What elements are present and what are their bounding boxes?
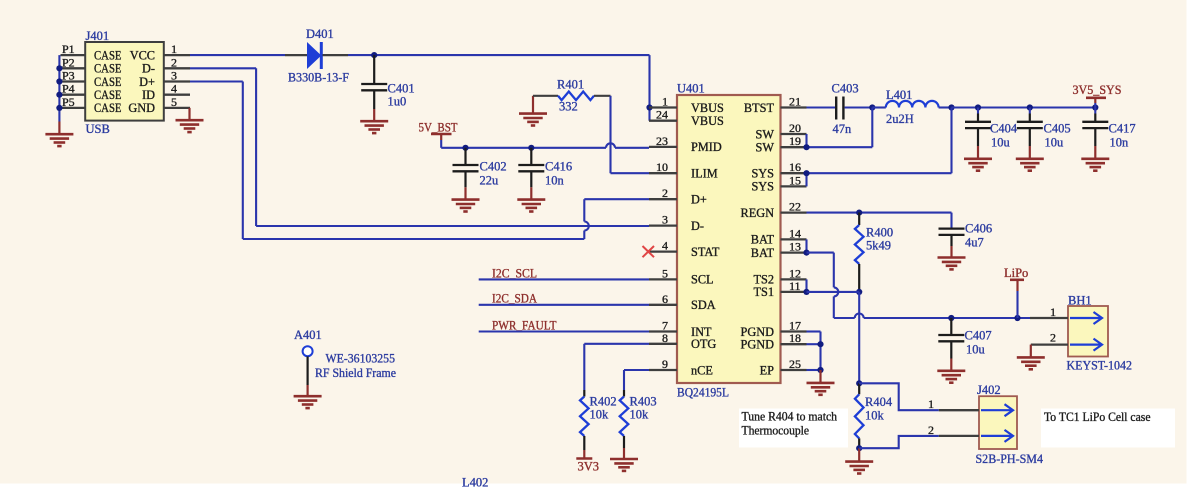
svg-text:8: 8 bbox=[662, 331, 668, 345]
svg-text:BAT: BAT bbox=[751, 233, 775, 247]
svg-text:10: 10 bbox=[656, 160, 668, 174]
J401 pin P4 stub bbox=[61, 94, 86, 96]
svg-text:CASE: CASE bbox=[94, 75, 122, 89]
svg-text:PWR_FAULT: PWR_FAULT bbox=[492, 318, 557, 332]
svg-text:To TC1 LiPo Cell case: To TC1 LiPo Cell case bbox=[1044, 410, 1151, 424]
svg-text:CASE: CASE bbox=[94, 62, 122, 76]
R401 left lead bbox=[533, 95, 558, 97]
U401 pin 6 SDA stub bbox=[649, 304, 677, 306]
U401 pin 17 PGND stub bbox=[781, 330, 807, 332]
wire D+ to pin 2 bbox=[584, 198, 649, 200]
svg-text:R402: R402 bbox=[590, 395, 617, 409]
wire BAT down bbox=[833, 253, 835, 288]
U401 pin 1 VBUS stub bbox=[649, 106, 677, 108]
svg-text:18: 18 bbox=[789, 331, 801, 345]
svg-text:9: 9 bbox=[662, 357, 668, 371]
svg-text:B330B-13-F: B330B-13-F bbox=[288, 71, 349, 85]
C407 bottom lead bbox=[950, 341, 952, 359]
wire L401 to SYS node bbox=[939, 106, 952, 108]
svg-text:C401: C401 bbox=[388, 82, 415, 96]
svg-text:STAT: STAT bbox=[691, 245, 720, 259]
svg-text:332: 332 bbox=[559, 100, 578, 114]
svg-text:SYS: SYS bbox=[751, 167, 774, 181]
svg-text:P4: P4 bbox=[62, 82, 75, 96]
wire D+ vertical riser bbox=[583, 231, 585, 240]
svg-text:BAT: BAT bbox=[751, 246, 775, 260]
ground C417 bbox=[1081, 159, 1109, 171]
svg-text:1u0: 1u0 bbox=[388, 95, 407, 109]
note box To TC1 bbox=[1041, 409, 1175, 448]
C417 bottom lead bbox=[1094, 128, 1096, 146]
wire USB pin5 gnd stub (red) bbox=[188, 108, 190, 120]
svg-text:J401: J401 bbox=[86, 29, 110, 43]
ground C401 bbox=[360, 121, 388, 133]
svg-text:C406: C406 bbox=[965, 222, 992, 236]
wire BAT horizontal to BH1 bbox=[834, 317, 855, 319]
J401 pin 5 stub bbox=[164, 107, 190, 109]
junction LiPo bbox=[1014, 315, 1020, 321]
R403 bottom lead bbox=[623, 436, 625, 448]
svg-text:C404: C404 bbox=[990, 122, 1018, 136]
svg-text:CASE: CASE bbox=[94, 48, 122, 62]
U401 pin 23 PMID stub bbox=[649, 146, 677, 148]
R403 top lead bbox=[623, 390, 625, 397]
R402 top lead bbox=[583, 390, 585, 397]
svg-text:24: 24 bbox=[656, 108, 668, 122]
svg-text:BH1: BH1 bbox=[1068, 294, 1092, 308]
svg-text:PGND: PGND bbox=[741, 338, 775, 352]
C406 bottom lead bbox=[950, 235, 952, 246]
wire bracket pins 20-19 bbox=[805, 134, 807, 147]
svg-text:SW: SW bbox=[756, 127, 775, 141]
svg-text:D+: D+ bbox=[691, 193, 707, 207]
BH1 pin 2 stub bbox=[1031, 343, 1068, 345]
wire tap to J402 pin 1 bbox=[859, 383, 939, 410]
U401 pin 9 nCE stub bbox=[649, 369, 677, 371]
wire VBUS vertical to U401 pin1 bbox=[648, 55, 650, 121]
svg-text:15: 15 bbox=[789, 173, 801, 187]
svg-text:L402: L402 bbox=[462, 476, 488, 490]
antenna mount A401 circle bbox=[303, 346, 313, 356]
BH1 pin 2 arrow bbox=[1070, 339, 1102, 351]
svg-text:13: 13 bbox=[789, 240, 801, 254]
svg-text:3: 3 bbox=[662, 213, 668, 227]
junction C405 bbox=[1027, 104, 1033, 110]
svg-text:5k49: 5k49 bbox=[866, 239, 891, 253]
svg-text:D-: D- bbox=[142, 62, 155, 76]
svg-text:R400: R400 bbox=[866, 226, 893, 240]
R402 bottom lead bbox=[583, 436, 585, 450]
R400 top lead bbox=[858, 213, 860, 225]
svg-text:C416: C416 bbox=[545, 160, 572, 174]
resistor R403 bbox=[620, 397, 629, 437]
wire REGN from pin 22 bbox=[807, 212, 952, 214]
wire SYS rail to caps bbox=[952, 106, 1096, 108]
svg-text:2: 2 bbox=[662, 186, 668, 200]
wire OTG pin 8 to R402 bbox=[584, 343, 649, 345]
wire pin21 to C403 bbox=[807, 106, 836, 108]
svg-text:C417: C417 bbox=[1109, 122, 1136, 136]
svg-text:BQ24195L: BQ24195L bbox=[677, 386, 729, 400]
svg-text:EP: EP bbox=[760, 363, 775, 377]
note box Tune R404 bbox=[739, 409, 848, 448]
wire USB shell bus vertical bbox=[58, 55, 60, 121]
wire D- from USB pin2 bbox=[190, 67, 256, 69]
svg-text:11: 11 bbox=[789, 279, 801, 293]
wire bracket pins 14-13 bbox=[805, 239, 807, 252]
capacitor C402 top lead bbox=[464, 148, 466, 165]
svg-text:3V3: 3V3 bbox=[578, 460, 600, 474]
svg-text:10u: 10u bbox=[966, 343, 986, 357]
R401 left ground stub (red) bbox=[532, 96, 534, 114]
wire PWR_FAULT to pin 7 bbox=[479, 330, 649, 332]
svg-text:A401: A401 bbox=[294, 328, 322, 342]
ground A401 bbox=[294, 396, 322, 408]
svg-text:14: 14 bbox=[789, 226, 801, 240]
U401 pin 13 BAT stub bbox=[781, 251, 807, 253]
inductor L401 bbox=[886, 101, 939, 108]
svg-text:C403: C403 bbox=[832, 82, 859, 96]
svg-text:1: 1 bbox=[171, 42, 177, 56]
U401 pin 4 STAT stub bbox=[649, 250, 677, 252]
U401 pin 10 ILIM stub bbox=[649, 172, 677, 174]
hop BAT over R404 wire bbox=[855, 314, 864, 319]
junction SW bracket bbox=[803, 144, 809, 150]
J401 pin 4 stub bbox=[164, 94, 190, 96]
capacitor C407 top lead bbox=[950, 318, 952, 335]
svg-text:SW: SW bbox=[756, 141, 775, 155]
svg-text:R403: R403 bbox=[630, 395, 657, 409]
svg-text:25: 25 bbox=[789, 357, 801, 371]
svg-text:VCC: VCC bbox=[130, 48, 155, 62]
wire I2C_SDA to pin 6 bbox=[479, 304, 649, 306]
wire TS to R400 bottom bbox=[807, 291, 860, 293]
R401 right lead bbox=[594, 95, 611, 97]
R404 top lead bbox=[858, 383, 860, 394]
svg-text:1: 1 bbox=[1050, 305, 1056, 319]
svg-text:21: 21 bbox=[789, 95, 801, 109]
J402 pin 1 arrow bbox=[981, 404, 1013, 416]
svg-text:4: 4 bbox=[171, 82, 177, 96]
svg-text:10n: 10n bbox=[545, 174, 565, 188]
svg-text:2u2H: 2u2H bbox=[886, 112, 914, 126]
svg-text:SDA: SDA bbox=[691, 298, 716, 312]
J401 pin P2 stub bbox=[61, 67, 86, 69]
svg-text:OTG: OTG bbox=[691, 337, 716, 351]
ground USB shell bbox=[45, 134, 73, 146]
junction SW node bbox=[869, 104, 875, 110]
junction BAT bracket bbox=[803, 250, 809, 256]
R404 bottom lead bbox=[858, 438, 860, 448]
capacitor C417 bbox=[1082, 122, 1108, 128]
U401 pin 18 PGND stub bbox=[781, 343, 807, 345]
svg-text:ID: ID bbox=[142, 88, 155, 102]
wire REGN down to C406 bbox=[950, 213, 952, 229]
svg-text:BTST: BTST bbox=[744, 101, 775, 115]
J401 pin 3 stub bbox=[164, 80, 190, 82]
svg-text:R401: R401 bbox=[557, 78, 584, 92]
junction EP bbox=[817, 367, 823, 373]
svg-text:I2C_SDA: I2C_SDA bbox=[492, 292, 537, 306]
U401 pin 11 TS1 stub bbox=[781, 291, 807, 293]
junction R400 top bbox=[856, 210, 862, 216]
wire BAT right bbox=[807, 252, 834, 254]
J401 pin P1 stub bbox=[61, 54, 86, 56]
svg-text:5V_BST: 5V_BST bbox=[419, 121, 458, 135]
junction TS bracket bbox=[803, 289, 809, 295]
ground R403 bbox=[610, 459, 638, 471]
svg-text:REGN: REGN bbox=[741, 206, 775, 220]
svg-text:C402: C402 bbox=[480, 160, 507, 174]
svg-text:GND: GND bbox=[128, 101, 155, 115]
resistor R400 bbox=[855, 225, 864, 264]
capacitor C403 (series) bbox=[836, 97, 843, 120]
svg-text:P3: P3 bbox=[62, 69, 75, 83]
C404 bottom lead bbox=[977, 128, 979, 146]
svg-text:23: 23 bbox=[656, 134, 668, 148]
svg-text:Tune R404 to match: Tune R404 to match bbox=[742, 410, 838, 424]
C401 bottom lead bbox=[373, 90, 375, 109]
junction P4 bbox=[56, 92, 62, 98]
capacitor C407 bbox=[938, 335, 964, 341]
resistor R401 bbox=[558, 92, 594, 101]
junction C402 bbox=[462, 145, 468, 151]
capacitor C417 top lead bbox=[1094, 108, 1096, 114]
svg-text:RF Shield Frame: RF Shield Frame bbox=[315, 366, 396, 380]
svg-text:C407: C407 bbox=[965, 329, 992, 343]
junction SYS bracket bbox=[803, 170, 809, 176]
svg-text:16: 16 bbox=[789, 160, 801, 174]
U401 pin 15 SYS stub bbox=[781, 185, 807, 187]
ground BH1 bbox=[1017, 357, 1045, 369]
wire PMID net bbox=[441, 147, 606, 149]
BH1 pin 2 ground stub (red) bbox=[1030, 345, 1032, 358]
U401 pin 14 BAT stub bbox=[781, 238, 807, 240]
U401 pin 25 EP stub bbox=[781, 369, 807, 371]
svg-text:P2: P2 bbox=[62, 55, 75, 69]
svg-text:J402: J402 bbox=[977, 383, 1001, 397]
U401 pin 19 SW stub bbox=[781, 146, 807, 148]
U401 pin 20 SW stub bbox=[781, 133, 807, 135]
BH1 pin 1 stub bbox=[1030, 317, 1068, 319]
J401 pin 2 stub bbox=[164, 67, 190, 69]
svg-text:PMID: PMID bbox=[691, 140, 722, 154]
wire USB shell to ground (red) bbox=[58, 122, 60, 135]
wire VCC to diode bbox=[190, 54, 285, 56]
svg-text:WE-36103255: WE-36103255 bbox=[326, 352, 396, 366]
U401 pin 12 TS2 stub bbox=[781, 278, 807, 280]
svg-text:R404: R404 bbox=[865, 395, 893, 409]
svg-text:SCL: SCL bbox=[691, 273, 714, 287]
wire SYS node to pins 16-15 bbox=[807, 172, 952, 174]
svg-text:3V5_SYS: 3V5_SYS bbox=[1073, 83, 1122, 97]
R404 ground stub (red) bbox=[858, 448, 860, 461]
capacitor C405 top lead bbox=[1029, 108, 1031, 114]
svg-text:4: 4 bbox=[662, 239, 668, 253]
wire bracket pins 12-11 bbox=[805, 279, 807, 292]
capacitor C405 bbox=[1017, 122, 1043, 128]
svg-text:CASE: CASE bbox=[94, 88, 122, 102]
svg-text:CASE: CASE bbox=[94, 101, 122, 115]
wire SW node to L401 bbox=[872, 106, 886, 108]
svg-text:6: 6 bbox=[662, 292, 668, 306]
svg-text:VBUS: VBUS bbox=[691, 114, 724, 128]
ground C406 bbox=[938, 258, 966, 270]
svg-text:SYS: SYS bbox=[751, 180, 774, 194]
svg-text:nCE: nCE bbox=[691, 363, 713, 377]
svg-text:4u7: 4u7 bbox=[965, 236, 984, 250]
svg-text:P5: P5 bbox=[62, 95, 75, 109]
U401 pin 5 SCL stub bbox=[649, 278, 677, 280]
svg-text:KEYST-1042: KEYST-1042 bbox=[1067, 359, 1133, 373]
U401 pin 16 SYS stub bbox=[781, 172, 807, 174]
svg-text:Thermocouple: Thermocouple bbox=[742, 424, 810, 438]
svg-text:D-: D- bbox=[691, 219, 704, 233]
junction VBUS pins 1-24 bbox=[646, 104, 652, 110]
connector BH1 box bbox=[1068, 306, 1108, 357]
svg-text:10k: 10k bbox=[865, 409, 885, 423]
svg-text:1: 1 bbox=[928, 397, 934, 411]
wire SW node to pins 19-20 bbox=[807, 146, 873, 148]
junction TS node bbox=[856, 289, 862, 295]
junction C416 bbox=[528, 145, 534, 151]
U401 pin 7 INT stub bbox=[649, 330, 677, 332]
junction C417 bbox=[1092, 104, 1098, 110]
U401 pin 2 D+ stub bbox=[649, 198, 677, 200]
ground PGND bbox=[807, 383, 835, 395]
J401 pin 1 stub bbox=[164, 54, 190, 56]
wire SW node down bbox=[871, 108, 873, 148]
svg-text:TS1: TS1 bbox=[754, 285, 775, 299]
svg-text:1: 1 bbox=[662, 95, 668, 109]
svg-text:USB: USB bbox=[86, 122, 110, 136]
U401 pin 3 D- stub bbox=[649, 224, 677, 226]
ground C402 bbox=[452, 200, 480, 212]
wire bracket pins 17-18 bbox=[807, 330, 821, 332]
svg-text:5: 5 bbox=[171, 95, 177, 109]
junction SYS node bbox=[948, 104, 954, 110]
svg-text:2: 2 bbox=[171, 55, 177, 69]
wire tap to J402 pin 2 bbox=[859, 436, 939, 448]
C402 bottom lead bbox=[464, 171, 466, 187]
svg-text:U401: U401 bbox=[677, 82, 705, 96]
ground R404 bbox=[845, 462, 873, 474]
capacitor C416 bbox=[518, 165, 544, 171]
junction P5 bbox=[56, 105, 62, 111]
wire SYS node down bbox=[950, 108, 952, 174]
svg-text:22u: 22u bbox=[480, 174, 500, 188]
junction P2 bbox=[56, 65, 62, 71]
svg-text:I2C_SCL: I2C_SCL bbox=[492, 266, 537, 280]
J401 pin P3 stub bbox=[61, 80, 86, 82]
wire R401 to ILIM vertical bbox=[609, 96, 611, 173]
J402 pin 1 stub bbox=[939, 409, 979, 411]
svg-text:5: 5 bbox=[662, 266, 668, 280]
connector J401 box bbox=[85, 42, 164, 121]
svg-text:22: 22 bbox=[789, 200, 801, 214]
C416 bottom lead bbox=[530, 171, 532, 187]
wire C403 to SW node bbox=[845, 106, 873, 108]
junction J402 pin1 tap bbox=[856, 380, 862, 386]
svg-text:ILIM: ILIM bbox=[691, 167, 718, 181]
capacitor C406 bbox=[939, 229, 965, 235]
junction C401 node bbox=[371, 52, 377, 58]
capacitor C401 bbox=[361, 84, 387, 90]
svg-text:VBUS: VBUS bbox=[691, 101, 724, 115]
junction C404 bbox=[975, 104, 981, 110]
A401 lead bbox=[307, 356, 309, 385]
ground C404 bbox=[964, 159, 992, 171]
op-amp U401 body bbox=[677, 95, 781, 383]
wire TS node down to R404 bbox=[858, 292, 860, 383]
J402 pin 2 stub bbox=[939, 435, 979, 437]
svg-text:10n: 10n bbox=[1110, 136, 1130, 150]
wire I2C_SCL to pin 5 bbox=[479, 278, 649, 280]
svg-text:LiPo: LiPo bbox=[1004, 266, 1028, 280]
capacitor C416 top lead bbox=[530, 148, 532, 165]
U401 pin 21 BTST stub bbox=[781, 106, 807, 108]
J401 pin P5 stub bbox=[61, 107, 86, 109]
power port 3V3 bbox=[583, 450, 585, 459]
no-connect X on pin 4 STAT bbox=[643, 246, 655, 257]
capacitor C402 bbox=[453, 165, 479, 171]
svg-text:D+: D+ bbox=[139, 75, 155, 89]
ground C405 bbox=[1016, 159, 1044, 171]
hop BAT over TS wire bbox=[834, 287, 839, 296]
U401 pin 8 OTG stub bbox=[649, 343, 677, 345]
ground C416 bbox=[517, 200, 545, 212]
svg-text:C405: C405 bbox=[1044, 122, 1071, 136]
wire D+ from USB pin3 bbox=[190, 80, 243, 82]
svg-text:10u: 10u bbox=[991, 136, 1011, 150]
svg-text:L401: L401 bbox=[886, 88, 912, 102]
J402 pin 2 arrow bbox=[981, 430, 1013, 442]
svg-text:10k: 10k bbox=[590, 408, 610, 422]
ground C407 bbox=[937, 371, 965, 383]
junction P3 bbox=[56, 78, 62, 84]
wire bracket pins 16-15 bbox=[805, 173, 807, 186]
resistor R402 bbox=[580, 397, 589, 437]
svg-text:2: 2 bbox=[1050, 331, 1056, 345]
capacitor C404 bbox=[965, 122, 991, 128]
diode D401 bbox=[307, 42, 321, 69]
capacitor C404 top lead bbox=[977, 108, 979, 114]
svg-text:20: 20 bbox=[789, 121, 801, 135]
svg-text:P1: P1 bbox=[62, 42, 75, 56]
svg-text:3: 3 bbox=[171, 69, 177, 83]
hop D+ over D- wire bbox=[584, 222, 589, 231]
svg-text:10u: 10u bbox=[1045, 136, 1065, 150]
svg-text:47n: 47n bbox=[833, 122, 853, 136]
junction C407 bbox=[948, 315, 954, 321]
svg-text:19: 19 bbox=[789, 134, 801, 148]
svg-text:D401: D401 bbox=[306, 27, 334, 41]
U401 pin 22 REGN stub bbox=[781, 211, 807, 213]
resistor R404 bbox=[855, 394, 864, 438]
svg-text:2: 2 bbox=[928, 423, 934, 437]
connector J402 box bbox=[979, 396, 1017, 449]
C405 bottom lead bbox=[1029, 128, 1031, 146]
ground R401 bbox=[519, 114, 547, 126]
U401 pin 24 VBUS stub bbox=[649, 120, 677, 122]
svg-text:10k: 10k bbox=[630, 408, 650, 422]
BH1 pin 1 arrow bbox=[1070, 312, 1102, 324]
wire EP to ground (red) bbox=[819, 370, 821, 383]
hop PMID over R401 wire bbox=[606, 143, 615, 148]
wire to pin 10 ILIM bbox=[611, 172, 650, 174]
capacitor C401 top lead bbox=[373, 55, 375, 84]
R400 bottom lead bbox=[858, 264, 860, 292]
